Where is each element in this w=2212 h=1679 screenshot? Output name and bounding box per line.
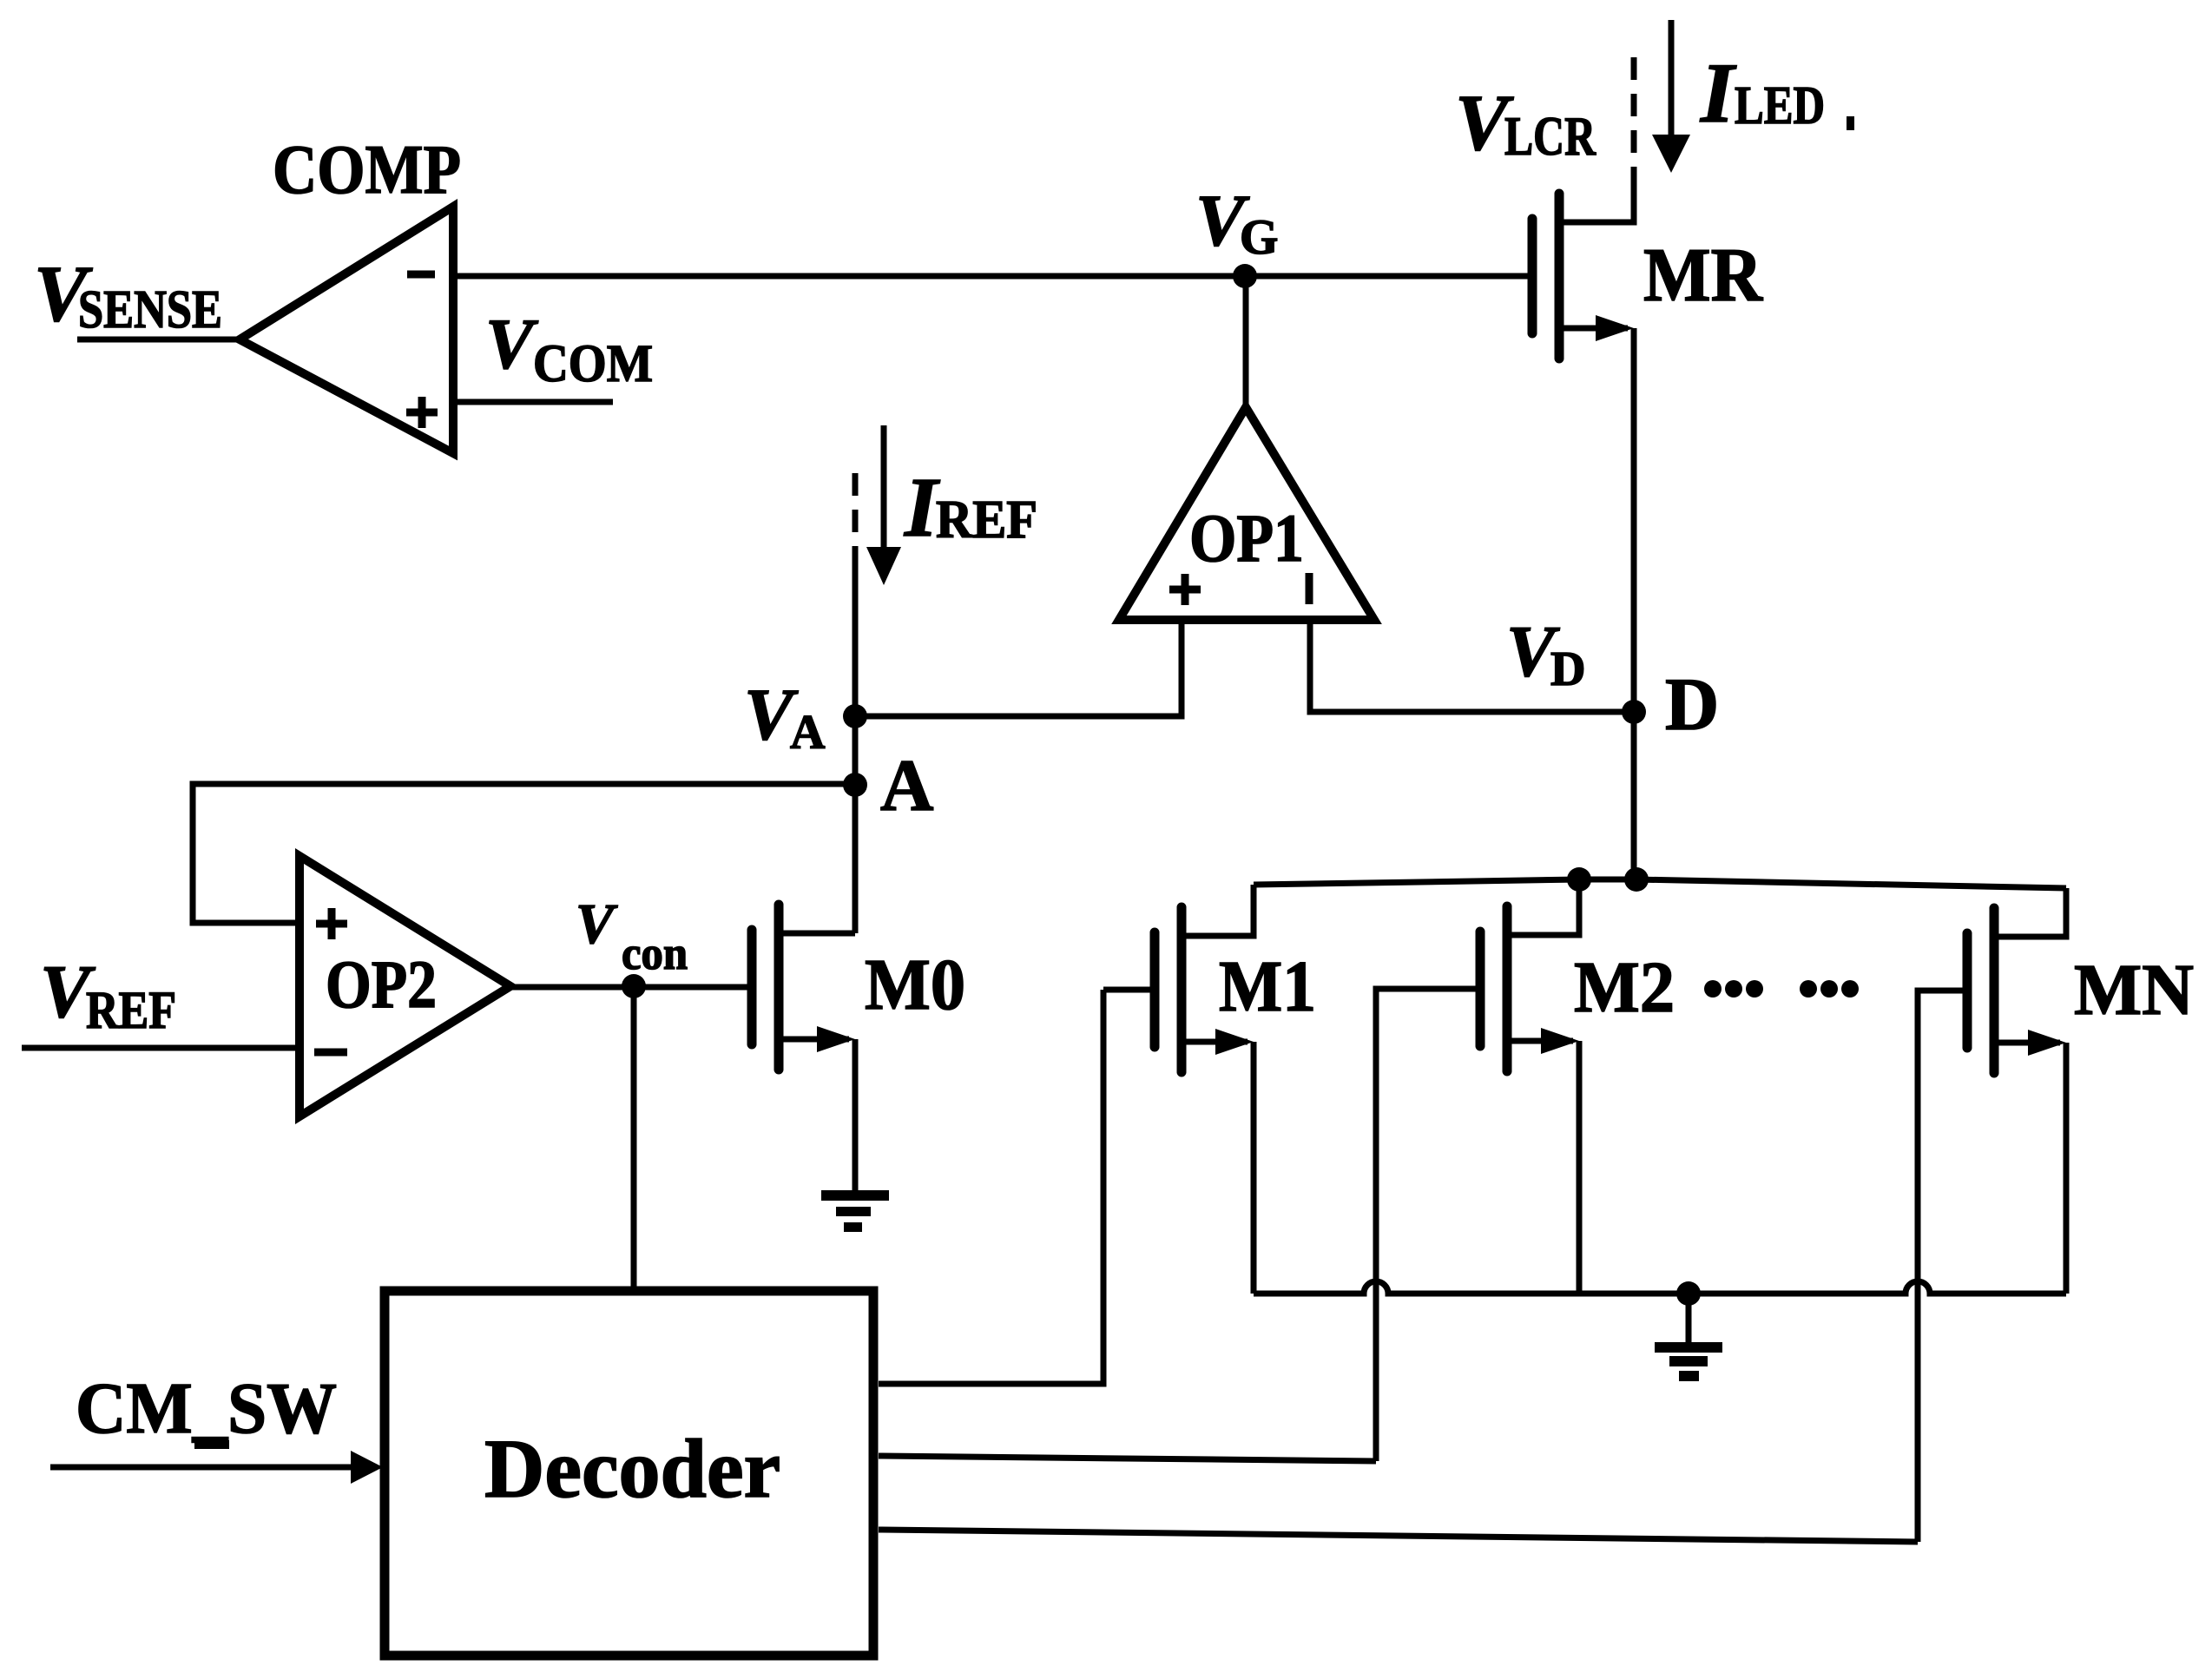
label V_G [1195, 180, 1278, 265]
wire MN source riser to bus [2064, 1043, 2070, 1294]
svg-text:V: V [576, 892, 618, 956]
svg-text:OP2: OP2 [326, 946, 437, 1022]
label V_COM [485, 304, 653, 393]
OP2 minus sign [314, 1049, 347, 1057]
svg-text:MR: MR [1643, 234, 1763, 318]
wire MR drain [1559, 167, 1634, 222]
svg-text:OP1: OP1 [1189, 500, 1304, 576]
wire A node vertical to M0 drain [853, 716, 859, 933]
wire M2 drain to bus [1507, 879, 1579, 935]
label V_D [1506, 611, 1585, 696]
label V_A [744, 674, 826, 760]
wire M2 source with arrow [1507, 1038, 1573, 1044]
svg-text:V: V [485, 304, 538, 384]
svg-text:M0: M0 [865, 945, 965, 1025]
node source bus ground [1676, 1281, 1701, 1306]
label V_con [576, 892, 688, 979]
ground under M0 [821, 1190, 889, 1232]
wire source bus with hops [1254, 1281, 2066, 1294]
wire OP1 plus input leg [855, 620, 1182, 716]
wire MN source with arrow [1994, 1040, 2060, 1046]
wire M2 source riser to bus [1577, 1041, 1583, 1294]
current arrow I_REF [853, 473, 859, 569]
ellipsis dots [1704, 980, 1859, 998]
label V_SENSE [34, 249, 222, 339]
node drain bus M2 [1567, 867, 1591, 892]
wire V_con to Decoder [631, 987, 637, 1291]
Decoder box [385, 1291, 873, 1656]
transistor M0 gate bar [747, 930, 757, 1044]
node D [1622, 700, 1646, 724]
wire M0 source with arrow [779, 1037, 849, 1043]
wire M1 gate [1103, 987, 1155, 993]
wire M1 source riser to bus [1251, 1042, 1257, 1294]
wire M1 source with arrow [1182, 1039, 1248, 1045]
svg-text:M2: M2 [1574, 947, 1675, 1028]
svg-text:D: D [1665, 662, 1719, 746]
transistor M2 channel bar [1503, 906, 1512, 1071]
node V_G [1233, 264, 1257, 288]
label V_REF [40, 949, 176, 1040]
svg-text:con: con [622, 927, 688, 979]
COMP plus sign [406, 397, 438, 428]
OP2 plus sign [316, 908, 347, 939]
node V_A [843, 704, 867, 728]
op-amp OP1 [1119, 407, 1374, 620]
transistor M1 gate bar [1150, 932, 1160, 1047]
node drain bus D [1624, 867, 1649, 892]
wire decoder output 3 [879, 1530, 1918, 1542]
wire M0 drain [779, 931, 855, 937]
wire M2 gate riser [1376, 989, 1480, 1461]
transistor M0 channel bar [774, 905, 784, 1070]
COMP minus sign [407, 271, 435, 279]
svg-text:A: A [880, 745, 933, 826]
svg-text:COM: COM [533, 335, 653, 393]
wire M1 drain to bus [1182, 885, 1254, 936]
comparator COMP triangle [240, 207, 453, 453]
wire V_SENSE input [77, 337, 240, 343]
OP1 minus sign [1306, 573, 1313, 604]
current arrow I_LED [1669, 20, 1675, 139]
label I_REF [904, 461, 1037, 555]
svg-text:M1: M1 [1219, 946, 1316, 1027]
transistor M2 gate bar [1476, 932, 1485, 1046]
svg-text:G: G [1240, 210, 1278, 265]
svg-text:D: D [1550, 642, 1585, 696]
svg-text:LCR: LCR [1504, 105, 1596, 167]
wire OP2 output to M0 gate [510, 984, 752, 991]
node A [843, 773, 867, 797]
svg-text:REF: REF [936, 491, 1037, 550]
svg-text:I: I [1700, 46, 1737, 141]
svg-text:COMP: COMP [273, 132, 461, 208]
node V_con [622, 974, 646, 998]
wire COMP output to MR gate [453, 273, 1532, 280]
transistor MR channel bar [1555, 194, 1564, 359]
stray mark [1847, 116, 1854, 130]
label I_LED [1700, 46, 1825, 141]
wire OP1 output to V_G [1243, 276, 1249, 407]
wire M0 source to ground [853, 1039, 859, 1191]
wire feedback A to OP2 plus [193, 784, 855, 923]
wire drain bus [1254, 879, 2066, 888]
transistor MN gate bar [1963, 933, 1972, 1048]
wire decoder output 2 [879, 1456, 1376, 1461]
wire ground stub [1686, 1294, 1692, 1343]
svg-text:A: A [790, 706, 826, 760]
transistor MN channel bar [1990, 908, 1999, 1073]
wire MR source down to D and drain bus [1631, 328, 1637, 879]
wire MN drain to bus [1994, 888, 2066, 937]
OP1 plus sign [1169, 574, 1201, 605]
svg-text:LED: LED [1735, 76, 1825, 135]
svg-text:I: I [904, 461, 940, 555]
svg-text:MN: MN [2074, 950, 2194, 1030]
CM_SW underscore deepen [194, 1440, 229, 1449]
wire V_REF input [22, 1045, 300, 1051]
wire MN gate riser [1918, 991, 1967, 1542]
wire CM_SW input with arrow [50, 1465, 356, 1471]
dashed supply line above MR [1631, 57, 1637, 167]
label V_LCR [1455, 78, 1596, 167]
wire decoder output 1 [879, 990, 1103, 1384]
svg-text:SENSE: SENSE [78, 280, 222, 339]
svg-text:CM_SW: CM_SW [76, 1368, 337, 1449]
wire V_COM input [453, 399, 613, 405]
op-amp OP2 [300, 856, 510, 1116]
transistor M1 channel bar [1177, 907, 1187, 1072]
svg-text:REF: REF [86, 982, 176, 1040]
svg-text:Decoder: Decoder [484, 1422, 780, 1515]
transistor MR gate bar [1528, 219, 1537, 333]
wire MR source with arrow [1559, 326, 1628, 332]
wire OP1 minus input leg [1310, 620, 1634, 712]
ground on source bus [1655, 1342, 1722, 1381]
